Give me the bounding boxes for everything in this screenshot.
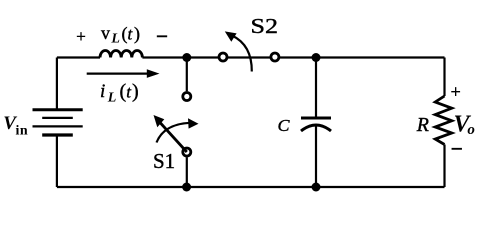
svg-text:): ) [134, 23, 140, 44]
svg-text:–: – [156, 25, 167, 46]
svg-text:i: i [100, 81, 105, 102]
svg-text:L: L [110, 32, 120, 47]
svg-text:in: in [16, 124, 29, 139]
svg-text:+: + [450, 82, 461, 103]
svg-text:v: v [101, 23, 110, 43]
svg-text:S1: S1 [153, 149, 175, 173]
svg-text:R: R [416, 114, 429, 136]
svg-text:+: + [76, 26, 86, 46]
svg-text:–: – [451, 138, 462, 159]
svg-text:): ) [132, 81, 139, 103]
svg-text:S2: S2 [251, 14, 279, 38]
svg-text:C: C [278, 116, 291, 135]
svg-text:L: L [107, 90, 117, 105]
svg-text:o: o [467, 122, 475, 138]
